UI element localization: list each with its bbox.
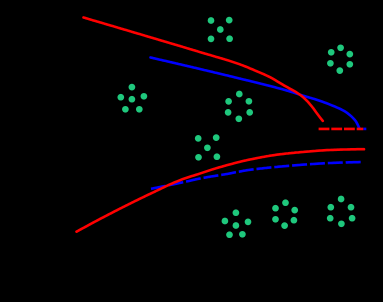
upper blue curve (solid, falls off to lower right) — [151, 58, 360, 129]
cluster 1 (5-dot quincunx, top centre) — [208, 17, 233, 43]
cluster 3 (pentagon ring + centre dot, mid left) — [117, 84, 147, 113]
cluster 5 (5-dot quincunx, centre) — [195, 134, 220, 160]
cluster 7 (6-dot ring, bottom centre) — [272, 199, 298, 229]
cluster 2 (6-dot ring, top right) — [327, 44, 353, 73]
cluster 4 (6-dot ring, mid centre) — [225, 91, 253, 123]
cluster 8 (6-dot ring, bottom right) — [327, 196, 356, 228]
red dashed horizontal line under curve endpoints — [319, 128, 364, 131]
lower blue dashed curve (rises and saturates below red) — [151, 162, 363, 189]
cluster 6 (pentagon ring + centre dot, bottom left of group) — [222, 209, 252, 238]
short blue dash continuing the horizontal line — [363, 128, 366, 131]
lower red curve (solid, rises and saturates) — [77, 149, 365, 232]
upper red curve (solid, falls off to lower right) — [84, 18, 323, 121]
